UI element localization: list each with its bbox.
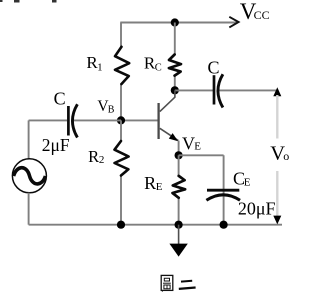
wire: top VCC rail from R1 top to arrow xyxy=(120,22,237,24)
Vo measurement line lower segment xyxy=(276,171,278,218)
capacitor C (input coupling) xyxy=(67,106,70,136)
svg-text:R: R xyxy=(88,147,99,166)
VCC arrow (open arrowhead) xyxy=(229,17,238,28)
node: VB junction dot xyxy=(117,116,125,124)
svg-text:C: C xyxy=(208,57,220,77)
node: bottom dot CE xyxy=(220,221,228,229)
resistor R1 xyxy=(115,47,129,84)
resistor R2 xyxy=(115,141,129,176)
wire: R1 branch vertical (top rail to VB) xyxy=(120,23,122,48)
Vo measurement arrow: bottom arrowhead xyxy=(273,216,281,225)
wire: output capacitor to Vo arrow xyxy=(218,89,277,91)
svg-text:20μF: 20μF xyxy=(238,199,276,219)
svg-text:C: C xyxy=(54,88,66,108)
node: VE junction dot xyxy=(175,151,183,159)
wire: emitter to VE node xyxy=(178,141,180,156)
node: bottom dot R2 xyxy=(117,221,125,229)
svg-text:E: E xyxy=(156,181,163,193)
transistor Q1: base wire xyxy=(121,119,158,121)
svg-text:E: E xyxy=(194,140,201,152)
node: top junction dot (VCC / RC) xyxy=(171,18,179,26)
svg-text:o: o xyxy=(283,149,289,163)
transistor Q1: emitter arrowhead xyxy=(169,133,178,141)
resistor RC xyxy=(169,55,181,76)
svg-text:CC: CC xyxy=(254,8,270,22)
wire: input line from source top to capacitor xyxy=(29,119,67,121)
wire: collector node to output capacitor xyxy=(175,89,213,91)
svg-text:E: E xyxy=(244,176,251,188)
svg-text:C: C xyxy=(155,63,162,74)
Vo measurement arrow: top arrowhead xyxy=(273,87,281,96)
node: collector junction dot xyxy=(171,86,179,94)
cut-off glyph fragments at top edge xyxy=(0,0,57,3)
capacitor CE: top plate xyxy=(207,189,239,192)
svg-text:B: B xyxy=(108,105,115,116)
wire: bottom ground rail xyxy=(29,224,282,226)
svg-text:V: V xyxy=(182,133,195,153)
wire: CE branch vertical xyxy=(223,155,225,224)
caption glyph 二 xyxy=(179,281,196,289)
ground symbol (arrow down) xyxy=(178,225,180,247)
source VS: circle xyxy=(12,159,46,193)
caption glyph 圖 xyxy=(161,275,173,291)
source VS: sine wave xyxy=(14,168,46,184)
capacitor C (output coupling) xyxy=(213,75,216,104)
svg-text:2μF: 2μF xyxy=(42,135,70,155)
capacitor CE: curved plate xyxy=(206,195,240,201)
transistor Q1: collector lead xyxy=(160,90,175,111)
wire: RE branch vertical xyxy=(178,155,180,176)
svg-text:1: 1 xyxy=(97,61,103,73)
transistor Q1: emitter lead xyxy=(160,128,179,140)
wire: RC branch vertical xyxy=(174,23,176,56)
node: bottom dot RE/ground xyxy=(175,221,183,229)
Vo measurement line upper segment xyxy=(276,95,278,139)
wire: left vertical above source xyxy=(28,120,30,159)
wire: left vertical below source xyxy=(28,193,30,225)
wire: VE node to CE branch xyxy=(179,154,224,156)
wire: input capacitor to VB xyxy=(73,119,121,121)
transistor Q1: base bar xyxy=(157,103,159,139)
resistor RE xyxy=(173,176,186,198)
svg-text:R: R xyxy=(144,173,156,193)
svg-text:2: 2 xyxy=(99,154,105,166)
wire: R2 branch vertical xyxy=(120,120,122,141)
